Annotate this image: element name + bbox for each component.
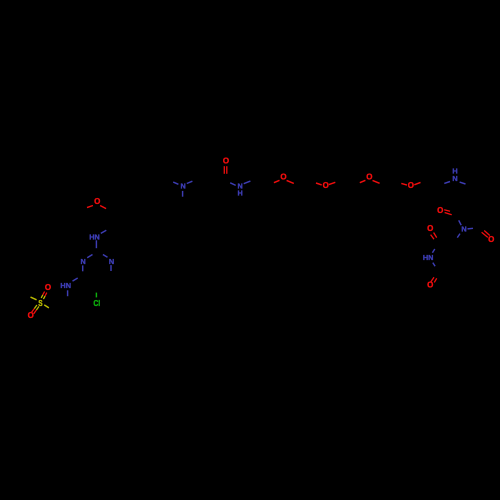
bond O3 left <box>360 180 366 182</box>
atom O1 (PEG ether) <box>280 173 286 182</box>
svg-text:HN: HN <box>60 281 71 290</box>
bond N3-C4 <box>110 265 112 271</box>
atom N3 pyrimidine <box>109 257 114 266</box>
svg-text:H: H <box>237 189 242 198</box>
svg-text:O: O <box>488 235 494 244</box>
svg-text:O: O <box>45 283 51 292</box>
bond O3 right <box>373 180 380 183</box>
atom O (glutarimide C=O bottom) <box>427 281 433 290</box>
bond S-CH2 <box>44 305 49 308</box>
atom O3 (PEG ether) <box>366 173 372 182</box>
bond HN-aryl <box>101 230 107 233</box>
svg-text:O: O <box>223 157 229 166</box>
bond O4 right <box>414 182 420 184</box>
svg-text:O: O <box>94 197 100 206</box>
bond C=O glutarimide top (double) <box>431 233 437 240</box>
bond N3-C2 <box>103 255 108 258</box>
atom N (phthalimide imide) <box>461 225 466 234</box>
bond N1-C6 <box>82 265 84 271</box>
svg-text:HN: HN <box>89 233 100 242</box>
svg-text:N: N <box>81 257 86 266</box>
bond O-CH3 (methoxy) <box>87 206 93 208</box>
svg-text:HN: HN <box>423 253 434 262</box>
svg-text:O: O <box>427 281 433 290</box>
bond C5-Cl <box>95 293 97 298</box>
atom O (glutarimide C=O top) <box>427 224 433 233</box>
bond NH-CH <box>67 290 69 296</box>
bond N-C(=O) right <box>468 227 474 230</box>
atom N (aryl NH) <box>452 167 457 184</box>
bond C=O phthalimide right (double) <box>482 231 490 238</box>
atom N (anilino NH, C2) <box>89 233 100 242</box>
bond N-CH2 left <box>173 182 178 184</box>
svg-text:O: O <box>427 224 433 233</box>
bond O1 left <box>274 180 280 182</box>
bond O2 right <box>329 182 335 184</box>
bond C=O glutarimide bottom (double) <box>431 277 437 282</box>
svg-text:N: N <box>109 257 114 266</box>
bond N-CH2 right <box>187 181 193 183</box>
bond O2 left <box>316 183 322 185</box>
bond NH-CH2 chain <box>444 182 450 184</box>
atom N (NH at C4) <box>60 281 71 290</box>
bond O4 left <box>401 183 407 185</box>
atom Cl <box>93 298 100 308</box>
atom N (glutarimide NH) <box>423 253 434 262</box>
atom S (sulfonyl) <box>38 298 43 308</box>
bond C=O phthalimide left (double) <box>444 210 452 215</box>
atom N (amide NH) <box>237 182 242 198</box>
bond HN-C(=O) top <box>432 249 434 253</box>
svg-text:O: O <box>408 181 414 190</box>
svg-text:O: O <box>437 206 443 215</box>
bond N-CH2 down <box>182 191 184 197</box>
bond N-C(=O) left <box>459 220 462 225</box>
bond HN-C2 pyrimidine <box>95 240 97 248</box>
bond N-C(=O) <box>230 183 236 186</box>
bond NH-aryl ring <box>460 182 466 184</box>
svg-text:N: N <box>180 182 185 191</box>
atom O (methoxy) <box>94 197 100 206</box>
bond N1-C2 <box>87 255 92 258</box>
atom O4 (PEG ether) <box>408 181 414 190</box>
atom O (sulfonyl bottom) <box>28 311 34 320</box>
bond N-CH2 (PEG side) <box>244 181 251 184</box>
svg-text:O: O <box>280 173 286 182</box>
svg-text:O: O <box>323 181 329 190</box>
bond S=O bottom (double) <box>32 305 39 314</box>
svg-text:O: O <box>366 173 372 182</box>
svg-text:H: H <box>452 167 457 176</box>
bond O1 right <box>287 180 294 183</box>
svg-text:O: O <box>28 311 34 320</box>
bond S=O top (double) <box>41 292 47 300</box>
bond S-CH3 <box>31 297 37 300</box>
atom O (amide carbonyl) <box>223 157 229 166</box>
atom O (sulfonyl top) <box>45 283 51 292</box>
atom O2 (PEG ether) <box>323 181 329 190</box>
atom O (phthalimide C=O left) <box>437 206 443 215</box>
svg-text:N: N <box>461 225 466 234</box>
bond N-CH glutarimide <box>457 234 460 238</box>
bond C=O amide (double) <box>224 166 227 174</box>
bond HN-C(=O) bottom <box>433 263 435 267</box>
bond NH-C4 <box>73 278 78 281</box>
atom O (phthalimide C=O right) <box>488 235 494 244</box>
bond O-aryl (methoxy) <box>100 206 106 209</box>
svg-text:Cl: Cl <box>93 298 100 308</box>
atom N (tertiary amine) <box>180 182 185 191</box>
atom N1 pyrimidine <box>81 257 86 266</box>
